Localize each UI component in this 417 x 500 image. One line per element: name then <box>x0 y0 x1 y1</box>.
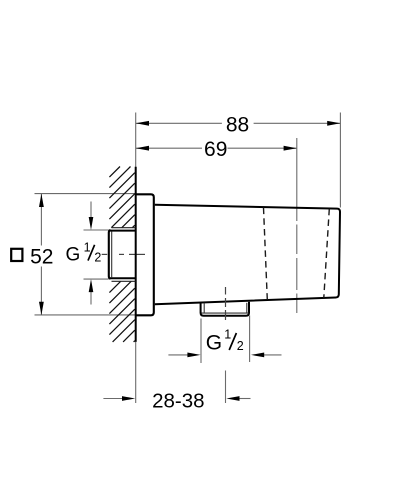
hidden cone left dashed <box>264 208 268 300</box>
wire dim-52 line <box>40 194 42 246</box>
node holder centerline x296.8 <box>296 138 298 221</box>
wire thread-inlet extension top <box>84 229 109 231</box>
thread inlet top edge <box>109 230 136 232</box>
arrow thread-inlet down <box>90 202 92 220</box>
label square-symbol <box>11 249 22 261</box>
wire outlet-G extension left <box>200 319 202 364</box>
hidden cone right dashed <box>324 209 330 298</box>
thread inlet crest top <box>112 227 136 229</box>
outlet thread inner bottom <box>202 312 249 314</box>
wire dim-88 extension left <box>135 113 137 168</box>
wire outlet-G extension right <box>249 316 251 363</box>
arrow dim-28-38 right <box>239 398 251 400</box>
wall hatching <box>109 167 134 342</box>
svg-text:2: 2 <box>94 250 101 264</box>
svg-text:52: 52 <box>30 246 53 269</box>
svg-text:69: 69 <box>204 138 227 161</box>
svg-text:G: G <box>206 332 222 355</box>
outlet stub <box>201 302 249 316</box>
thread inlet crest bottom <box>112 280 136 282</box>
body outline <box>155 205 340 304</box>
arrow dim-52 top <box>39 194 44 207</box>
arrow dim-52 bottom <box>39 302 44 315</box>
svg-text:G: G <box>66 244 81 265</box>
wire wall extension to 28-38 <box>135 342 137 403</box>
thread inlet left edge <box>109 230 111 279</box>
arrow outlet-G right <box>264 354 282 356</box>
svg-text:1: 1 <box>224 328 231 342</box>
wire dim-28-38 extension right <box>225 371 227 404</box>
arrow outlet-G left <box>168 354 188 356</box>
arrow dim-69 right <box>284 146 297 151</box>
outlet thread inner left <box>203 303 205 313</box>
wire thread-inlet extension bottom <box>84 278 109 280</box>
arrow dim-69 left <box>136 146 149 151</box>
wire dim-52 extension top <box>35 193 136 195</box>
outlet centerline <box>225 287 227 295</box>
wire dim-88 line <box>136 122 222 124</box>
svg-text:88: 88 <box>226 114 249 137</box>
wire inlet centerline <box>102 253 108 255</box>
thread inlet bottom edge <box>109 277 136 279</box>
arrow dim-28-38 left <box>103 398 122 400</box>
svg-text:28-38: 28-38 <box>152 390 204 413</box>
svg-text:1: 1 <box>84 241 91 255</box>
thread inlet chamfer line <box>111 232 113 278</box>
wire dim-69 line <box>136 147 202 149</box>
wire dim-88 extension right <box>339 113 341 208</box>
flange plate <box>136 194 154 315</box>
outlet thread inner right <box>246 303 248 313</box>
arrow dim-88 left <box>136 121 149 126</box>
arrow thread-inlet up <box>90 291 92 305</box>
wire dim-52 extension bottom <box>35 314 136 316</box>
wall face line <box>135 167 137 342</box>
svg-text:2: 2 <box>237 339 244 353</box>
arrow dim-88 right <box>327 121 340 126</box>
